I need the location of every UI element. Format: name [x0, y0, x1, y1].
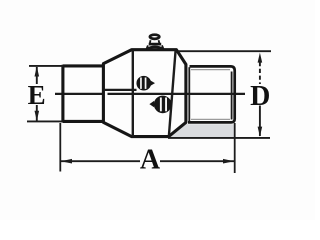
- hose shank cylinder left edge: [61, 65, 64, 123]
- D bottom extension line: [168, 137, 270, 139]
- hose shank cylinder bottom edge: [63, 120, 104, 123]
- body hex face line left: [132, 50, 134, 136]
- hose shank cylinder top edge: [63, 64, 104, 67]
- svg-text:E: E: [28, 80, 46, 110]
- D dimension dashed upper shaft: [259, 62, 261, 84]
- thread root line bottom: [191, 118, 230, 120]
- thread end chamfer line: [231, 72, 233, 120]
- shaded area under male thread: [169, 122, 234, 137]
- male thread outline: [188, 66, 235, 122]
- A right extension line: [234, 123, 236, 173]
- E dimension line lower segment: [36, 105, 38, 121]
- D dimension upper arrowhead: [258, 53, 263, 63]
- E dimension line upper segment: [36, 67, 38, 84]
- svg-text:D: D: [250, 81, 270, 112]
- E dimension upper arrowhead: [35, 66, 40, 76]
- lower set screw U2: [149, 97, 170, 112]
- E top extension line: [29, 65, 63, 67]
- D dimension lower arrowhead: [258, 127, 263, 137]
- centerline: [55, 93, 245, 95]
- upper set screw U1: [138, 77, 155, 89]
- E bottom extension line: [27, 120, 63, 122]
- grease fitting: [147, 35, 164, 50]
- body hex face line right slanted: [169, 50, 176, 136]
- svg-text:A: A: [140, 145, 161, 176]
- thread root line top: [191, 69, 230, 71]
- D top extension line: [178, 50, 271, 52]
- E dimension lower arrowhead: [35, 111, 40, 121]
- A dimension line right segment: [160, 160, 235, 162]
- body octagon outline: [103, 50, 185, 137]
- A left extension line: [59, 123, 61, 172]
- body step line at left: [103, 89, 136, 91]
- A dimension left arrowhead: [61, 159, 72, 164]
- A dimension right arrowhead: [223, 159, 234, 164]
- D dimension lower shaft: [259, 106, 261, 137]
- thread start line: [188, 67, 190, 121]
- A dimension line left segment: [60, 160, 140, 162]
